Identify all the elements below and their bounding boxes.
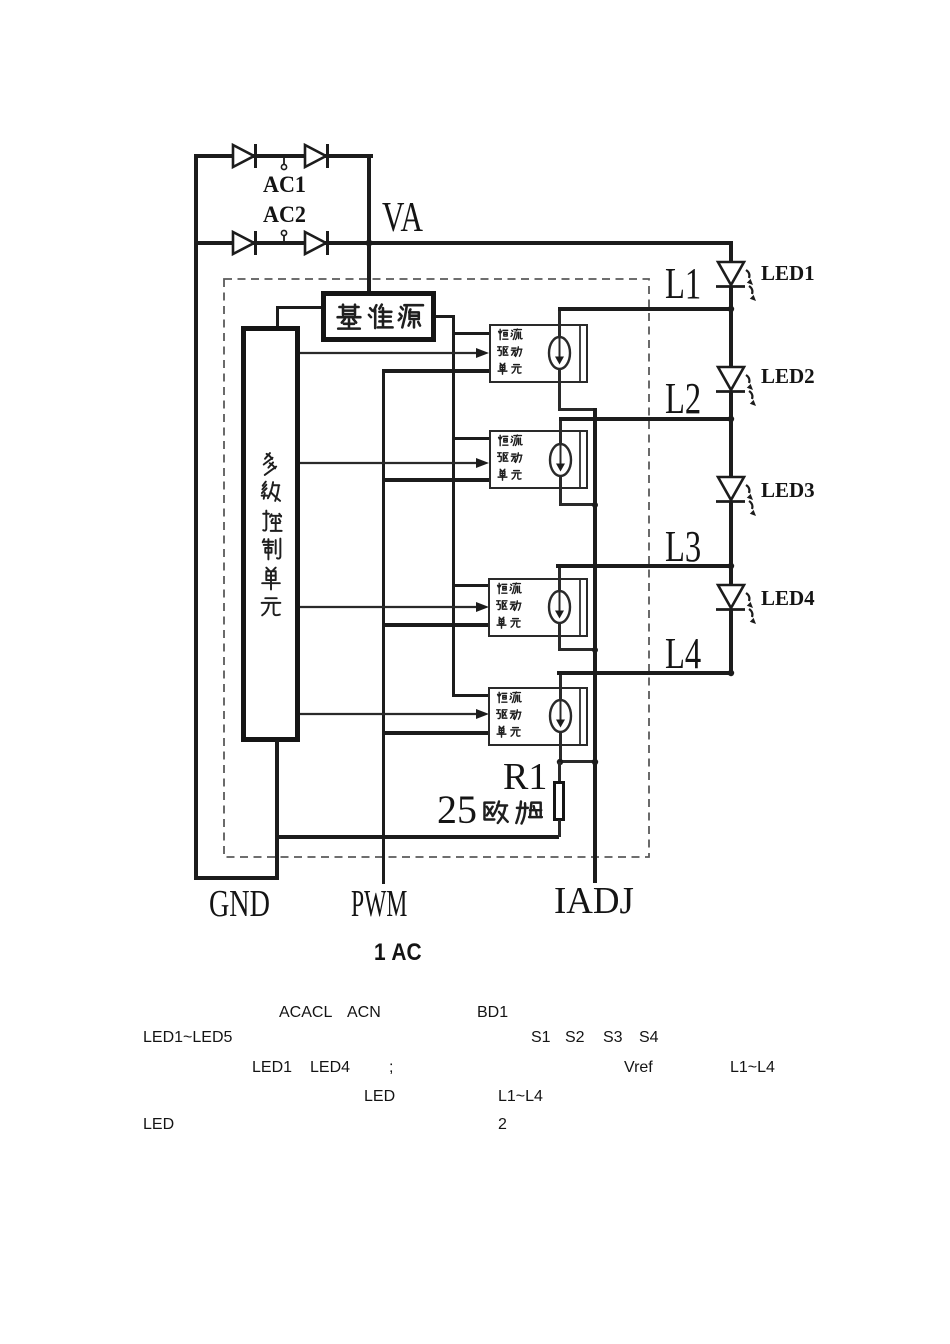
wire VA rail bbox=[194, 241, 733, 245]
label U3 恒流驱动单元 bbox=[495, 582, 508, 595]
diode D4 (VA rail right) bbox=[302, 229, 334, 257]
current source CS2 bbox=[547, 442, 574, 478]
node L1 junction bbox=[724, 302, 738, 316]
control arrow line to unit2 bbox=[300, 456, 490, 470]
node L2 junction bbox=[724, 412, 738, 426]
label 25欧姆 (25 ohm) bbox=[437, 790, 477, 830]
resistor R1 body bbox=[553, 781, 565, 821]
wire U1 current-source vertical bbox=[558, 309, 561, 409]
LED4 bbox=[712, 581, 762, 615]
control arrow line to unit4 bbox=[300, 707, 490, 721]
node L4 junction bbox=[724, 666, 738, 680]
wire R1 return rail bbox=[277, 835, 559, 839]
wire LED chain seg4 bbox=[729, 610, 733, 675]
constant current drive unit U4 box bbox=[488, 687, 588, 746]
wire PWM branch to unit3 bbox=[382, 623, 490, 627]
body text line1 bbox=[279, 1005, 332, 1021]
label IADJ bbox=[554, 882, 634, 920]
wire PWM vertical bbox=[382, 370, 385, 884]
label VA bbox=[382, 197, 423, 239]
wire L1 bbox=[558, 307, 733, 311]
label 基准源 (reference source) bbox=[334, 301, 364, 331]
constant current drive unit U2 box bbox=[489, 430, 588, 489]
wire GND stub bbox=[194, 876, 279, 880]
control arrow line to unit3 bbox=[300, 600, 490, 614]
node junction CS3-IADJ bbox=[588, 643, 602, 657]
label 多级控制单元 (multi-stage control unit) bbox=[258, 451, 284, 477]
AC2 input terminal stub bbox=[276, 226, 292, 244]
wire PWM branch to unit2 bbox=[382, 478, 490, 482]
LED2 bbox=[712, 363, 762, 397]
reference source box (基准源) bbox=[321, 291, 436, 342]
wire top AC rail bbox=[194, 154, 373, 158]
label AC1 bbox=[263, 173, 306, 196]
wire U4 current-source vertical bbox=[559, 673, 562, 764]
wire left vertical bus bbox=[194, 154, 198, 880]
body text line3 bbox=[252, 1060, 292, 1076]
wire IADJ vertical bbox=[593, 408, 597, 883]
U1 inner divider bbox=[579, 326, 581, 381]
wire U3 output step bbox=[558, 648, 596, 651]
label L1 bbox=[665, 262, 701, 306]
diode D2 (top rail right) bbox=[302, 142, 334, 170]
label GND bbox=[209, 885, 270, 923]
wire reference branch to unit1 bbox=[452, 332, 490, 335]
wire reference box left link horizontal bbox=[277, 306, 321, 309]
node L3 junction bbox=[724, 559, 738, 573]
wire R1 bottom lead bbox=[558, 820, 561, 837]
node junction CS2-IADJ bbox=[588, 498, 602, 512]
node VA junction bbox=[362, 236, 376, 250]
label U2 恒流驱动单元 bbox=[496, 434, 509, 447]
constant current drive unit U3 box bbox=[488, 578, 588, 637]
diode D1 (top rail left) bbox=[230, 142, 262, 170]
wire reference output horizontal bbox=[436, 315, 455, 318]
label LED2 bbox=[761, 366, 815, 387]
diode D3 (VA rail left) bbox=[230, 229, 262, 257]
wire LED chain top segment bbox=[729, 241, 733, 264]
wire L2 bbox=[559, 417, 733, 421]
wire LED chain seg2 bbox=[729, 392, 733, 477]
wire U4 output step bbox=[559, 760, 596, 763]
wire reference box left link vertical bbox=[276, 306, 279, 328]
LED1 bbox=[712, 258, 762, 292]
current source CS4 bbox=[547, 698, 574, 734]
U2 inner divider bbox=[579, 432, 581, 487]
label L2 bbox=[665, 377, 701, 421]
label LED1 bbox=[761, 263, 815, 284]
current source CS3 bbox=[546, 589, 573, 625]
caption 1 AC bbox=[374, 941, 422, 965]
wire L3 bbox=[556, 564, 733, 568]
node junction CS4-IADJ bbox=[588, 755, 602, 769]
label L3 bbox=[665, 525, 701, 569]
label AC2 bbox=[263, 203, 306, 226]
control arrow line to unit1 bbox=[300, 346, 490, 360]
dashed IC boundary bbox=[223, 278, 651, 859]
AC1 input terminal stub bbox=[276, 156, 292, 174]
body text line4 bbox=[364, 1089, 395, 1105]
U4 inner divider bbox=[579, 689, 581, 744]
label LED4 bbox=[761, 588, 815, 609]
label PWM bbox=[351, 885, 407, 923]
wire reference branch to unit2 bbox=[452, 437, 490, 440]
body text line5 bbox=[143, 1117, 174, 1133]
body text line2 bbox=[143, 1030, 232, 1046]
wire VA drop to reference box bbox=[367, 154, 371, 292]
multi-stage control unit box (多级控制单元) bbox=[241, 326, 300, 742]
constant current drive unit U1 box bbox=[489, 324, 588, 383]
wire control unit bottom drop bbox=[275, 740, 279, 880]
wire U1 output step bbox=[558, 408, 596, 411]
current source CS1 bbox=[546, 335, 573, 371]
wire L4 bbox=[557, 671, 733, 675]
wire reference branch to unit4 bbox=[452, 694, 490, 697]
wire PWM branch to unit4 bbox=[382, 731, 490, 735]
label U1 恒流驱动单元 bbox=[496, 328, 509, 341]
wire LED chain seg1 bbox=[729, 287, 733, 369]
wire LED chain seg3 bbox=[729, 502, 733, 585]
wire reference branch to unit3 bbox=[452, 584, 490, 587]
U3 inner divider bbox=[579, 580, 581, 635]
node junction R1 top bbox=[553, 755, 567, 769]
wire PWM branch to unit1 bbox=[382, 369, 490, 373]
wire U3 current-source vertical bbox=[558, 566, 561, 651]
label R1 bbox=[503, 758, 547, 796]
wire U2 output step bbox=[559, 503, 596, 506]
wire U2 current-source vertical bbox=[559, 419, 562, 505]
LED3 bbox=[712, 473, 762, 507]
label U4 恒流驱动单元 bbox=[495, 691, 508, 704]
wire reference vertical distribution bbox=[452, 315, 455, 697]
label LED3 bbox=[761, 480, 815, 501]
wire R1 top lead bbox=[558, 762, 561, 782]
label L4 bbox=[665, 632, 701, 676]
